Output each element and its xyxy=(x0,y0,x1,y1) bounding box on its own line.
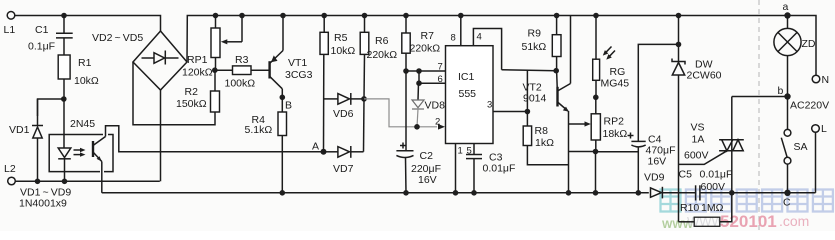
svg-text:VS: VS xyxy=(691,122,705,134)
watermark xyxy=(661,190,833,212)
svg-text:L1: L1 xyxy=(4,24,16,36)
bridge rectifier VD2~VD5 xyxy=(133,31,187,90)
svg-text:VD7: VD7 xyxy=(333,163,354,175)
svg-text:A: A xyxy=(312,141,319,153)
svg-text:9014: 9014 xyxy=(523,93,547,105)
svg-text:VT1: VT1 xyxy=(288,57,307,69)
triac VS xyxy=(731,97,733,193)
resistor R5 xyxy=(321,13,327,19)
svg-text:R7: R7 xyxy=(421,30,435,42)
svg-text:1N4001x9: 1N4001x9 xyxy=(19,198,67,210)
potentiometer RP1 xyxy=(213,13,219,19)
svg-text:L: L xyxy=(821,123,827,135)
svg-text:.com: .com xyxy=(779,213,809,229)
photoresistor RG xyxy=(593,13,599,19)
svg-text:C1: C1 xyxy=(35,24,49,36)
wire VD6 node to pin 2 (faint) xyxy=(364,99,437,127)
pin 4 (loops to R9 node) xyxy=(473,29,501,70)
crease line xyxy=(758,0,760,231)
svg-text:RG: RG xyxy=(610,66,626,78)
lamp ZD xyxy=(787,16,789,29)
svg-text:0.01μF: 0.01μF xyxy=(700,169,733,181)
svg-text:51kΩ: 51kΩ xyxy=(522,41,547,53)
svg-text:1kΩ: 1kΩ xyxy=(535,137,554,149)
LED inside 2N45 xyxy=(63,99,65,148)
svg-text:R10: R10 xyxy=(680,202,699,214)
svg-text:C: C xyxy=(783,197,791,209)
transistor VT1 xyxy=(268,61,270,78)
capacitor C5 (in rail) xyxy=(695,185,697,200)
node C1 top xyxy=(61,13,67,19)
diode VD7 xyxy=(324,151,338,153)
wire to VD1 xyxy=(38,99,64,116)
wire L1 to bridge top xyxy=(15,16,161,32)
svg-text:VD9: VD9 xyxy=(644,172,665,184)
svg-text:L2: L2 xyxy=(4,163,16,175)
svg-text:AC220V: AC220V xyxy=(790,100,829,112)
optocoupler 2N45 box xyxy=(49,135,103,172)
svg-text:MG45: MG45 xyxy=(601,78,630,90)
svg-text:4: 4 xyxy=(477,32,482,43)
capacitor C2 xyxy=(405,71,407,151)
svg-text:5: 5 xyxy=(467,146,472,157)
switch SA xyxy=(787,97,789,130)
svg-text:C5: C5 xyxy=(679,169,693,181)
svg-text:150kΩ: 150kΩ xyxy=(176,98,207,110)
branch to RP2 bottom node xyxy=(569,151,596,153)
svg-text:VD1: VD1 xyxy=(9,124,30,136)
svg-text:VD6: VD6 xyxy=(333,108,354,120)
pin 1 xyxy=(455,144,457,193)
svg-text:R3: R3 xyxy=(235,54,249,66)
svg-text:C2: C2 xyxy=(420,150,434,162)
resistor R10 xyxy=(694,217,720,226)
svg-text:120kΩ: 120kΩ xyxy=(182,67,213,79)
wire VD7 cathode up to VD6 node xyxy=(363,99,366,152)
wire VS bottom to node c xyxy=(732,192,788,194)
svg-text:18kΩ: 18kΩ xyxy=(603,128,628,140)
svg-text:555: 555 xyxy=(459,88,477,100)
resistor R3 xyxy=(215,69,233,71)
capacitor C1 xyxy=(63,16,65,34)
capacitor C3 xyxy=(473,144,475,155)
resistor R1 xyxy=(58,55,70,79)
diode VD1 xyxy=(37,99,39,126)
svg-text:N: N xyxy=(822,74,830,86)
svg-text:ZD: ZD xyxy=(802,38,816,50)
zener DW xyxy=(676,13,682,19)
node R7 bottom / pin 7 row xyxy=(403,68,409,74)
svg-text:7: 7 xyxy=(438,62,443,73)
svg-text:3: 3 xyxy=(487,100,492,111)
svg-text:a: a xyxy=(783,1,789,13)
IC1 555 xyxy=(446,46,494,144)
svg-text:B: B xyxy=(285,100,292,112)
diode VD9 (in ground rail) xyxy=(651,188,662,197)
wire phototransistor emitter to ground rail xyxy=(101,162,103,193)
svg-text:VD2 ~ VD5: VD2 ~ VD5 xyxy=(92,32,143,44)
node B xyxy=(280,95,286,101)
wire bridge right corner to +V rail xyxy=(187,16,816,76)
wire bridge bottom to L2 row xyxy=(160,90,162,181)
phototransistor of 2N45 xyxy=(92,141,94,157)
terminal L1 xyxy=(7,12,15,20)
svg-text:R2: R2 xyxy=(185,86,199,98)
svg-text:1: 1 xyxy=(458,146,463,157)
node b xyxy=(784,93,790,99)
RP2 wiper arrow from emitter line xyxy=(569,123,587,125)
diode VD6 xyxy=(324,98,338,100)
svg-text:220kΩ: 220kΩ xyxy=(410,43,441,55)
svg-text:0.1μF: 0.1μF xyxy=(28,41,55,53)
svg-text:R8: R8 xyxy=(535,125,549,137)
svg-text:R9: R9 xyxy=(528,28,542,40)
svg-text:VD8: VD8 xyxy=(425,100,446,112)
svg-text:3CG3: 3CG3 xyxy=(285,69,313,81)
svg-text:5.1kΩ: 5.1kΩ xyxy=(245,124,273,136)
svg-text:8: 8 xyxy=(451,33,456,44)
wire phototransistor collector to node A row xyxy=(106,126,324,152)
terminal L2 xyxy=(8,177,16,185)
svg-text:1A: 1A xyxy=(692,134,705,146)
resistor R8 xyxy=(523,126,531,146)
coupling arrows xyxy=(74,149,83,151)
diode VD8 xyxy=(417,83,420,100)
svg-text:2CW60: 2CW60 xyxy=(687,70,722,82)
potentiometer RP2 xyxy=(595,97,597,114)
svg-text:R6: R6 xyxy=(375,35,389,47)
svg-text:100kΩ: 100kΩ xyxy=(225,78,256,90)
svg-text:2: 2 xyxy=(435,117,440,128)
svg-text:0.01μF: 0.01μF xyxy=(483,163,516,175)
node c xyxy=(784,190,790,196)
svg-text:16V: 16V xyxy=(418,174,437,186)
node R1 bottom xyxy=(61,96,67,102)
resistor R7 xyxy=(403,13,409,19)
svg-text:SA: SA xyxy=(794,141,808,153)
svg-text:6: 6 xyxy=(438,74,443,85)
svg-text:IC1: IC1 xyxy=(458,71,475,83)
wire L2 row xyxy=(15,180,160,182)
node VD8 top / pin 6 row xyxy=(416,68,422,74)
terminal N xyxy=(812,75,820,83)
svg-text:RP2: RP2 xyxy=(604,116,625,128)
capacitor C4 xyxy=(638,44,678,141)
svg-text:R5: R5 xyxy=(334,32,348,44)
pin 3 net to R9/base and R8 xyxy=(525,109,531,115)
wire bridge left corner to R2 bottom xyxy=(133,62,215,125)
svg-text:10kΩ: 10kΩ xyxy=(331,45,356,57)
svg-text:b: b xyxy=(778,85,784,97)
svg-text:2N45: 2N45 xyxy=(70,118,95,130)
svg-text:600V: 600V xyxy=(701,181,726,193)
svg-text:1MΩ: 1MΩ xyxy=(701,202,724,214)
node a xyxy=(784,12,790,18)
svg-text:220kΩ: 220kΩ xyxy=(367,49,398,61)
node A xyxy=(321,149,327,155)
svg-text:R1: R1 xyxy=(78,57,92,69)
wire RP2 node to C4 bottom xyxy=(596,151,639,153)
transistor VT2 xyxy=(556,71,559,87)
resistor R9 xyxy=(554,13,560,19)
svg-text:16V: 16V xyxy=(648,156,667,168)
ground rail (left part) xyxy=(102,192,649,194)
emitter line to ground xyxy=(568,111,570,193)
svg-text:RP1: RP1 xyxy=(187,54,208,66)
svg-text:10kΩ: 10kΩ xyxy=(74,75,99,87)
resistor R2 xyxy=(214,70,216,91)
resistor R4 xyxy=(281,97,283,112)
resistor R6 xyxy=(362,13,368,19)
wire VS top to node b xyxy=(732,96,788,98)
terminal L xyxy=(812,125,820,133)
pin 8 xyxy=(460,16,462,46)
svg-text:600V: 600V xyxy=(684,150,709,162)
